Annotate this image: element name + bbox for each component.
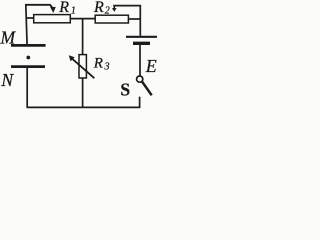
svg-text:R: R [58, 0, 69, 16]
svg-text:S: S [120, 80, 130, 100]
svg-text:M: M [0, 28, 17, 48]
svg-text:R: R [93, 0, 104, 16]
svg-text:E: E [145, 56, 157, 76]
svg-text:N: N [0, 70, 14, 90]
svg-text:3: 3 [104, 62, 110, 73]
svg-text:1: 1 [71, 6, 76, 17]
svg-text:2: 2 [105, 6, 110, 17]
svg-text:R: R [93, 55, 103, 71]
